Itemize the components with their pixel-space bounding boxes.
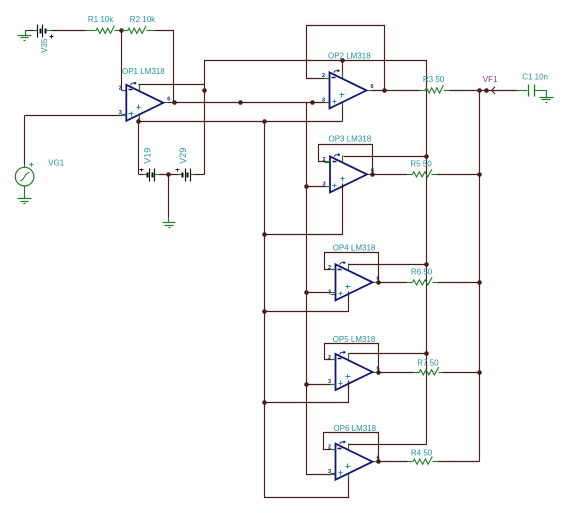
label R5 50 xyxy=(410,159,432,168)
node V- rail tap xyxy=(262,119,267,124)
node OP3 + input tap xyxy=(304,184,309,189)
label C1 10n xyxy=(522,73,548,82)
node battery center tap xyxy=(166,172,171,177)
wire junction to OP1 inverting input xyxy=(122,31,127,91)
wire VG1 to OP1 non-inverting input xyxy=(25,116,127,165)
label VG1 xyxy=(48,158,65,167)
wire OP3 V+ pin to rail xyxy=(344,156,427,158)
battery V29 xyxy=(176,169,195,182)
svg-text:R1 10k: R1 10k xyxy=(88,15,114,24)
ground at V35 xyxy=(18,31,32,41)
node wire join B xyxy=(310,100,315,105)
wire V35 to R1 xyxy=(52,30,86,32)
wire R6 to output rail xyxy=(438,282,480,284)
wire non-inverting input rail xyxy=(307,103,336,475)
wire OP3 + input from rail xyxy=(307,186,331,188)
node OP4 V- tap xyxy=(262,309,267,314)
node OP3 V- tap xyxy=(262,232,267,237)
node OP2 output xyxy=(382,88,387,93)
wire OP5 feedback loop xyxy=(325,344,379,373)
svg-text:R7 50: R7 50 xyxy=(417,359,439,368)
generator VG1 xyxy=(15,163,34,186)
label OP6 LM318 xyxy=(333,424,376,433)
svg-text:V35: V35 xyxy=(40,38,49,53)
svg-text:C1 10n: C1 10n xyxy=(522,73,548,82)
capacitor C1 xyxy=(529,85,535,97)
wire OP4 feedback loop xyxy=(325,253,379,283)
wire OP5 + input from rail xyxy=(307,384,336,386)
svg-text:2: 2 xyxy=(328,265,331,271)
node wire join A xyxy=(238,100,243,105)
resistor R1 xyxy=(86,26,122,34)
wire OP4 V+ pin to rail xyxy=(349,264,427,266)
svg-text:R5 50: R5 50 xyxy=(410,159,432,168)
svg-text:R4 50: R4 50 xyxy=(411,449,433,458)
resistor R2 xyxy=(122,26,156,34)
svg-text:6: 6 xyxy=(371,84,374,90)
op-amp OP1 LM318 xyxy=(119,82,171,121)
resistor R7 xyxy=(414,367,443,375)
node R7 output tap xyxy=(477,370,482,375)
op-amp OP5 LM318 xyxy=(328,351,380,390)
node OP5 V+ tap xyxy=(424,351,429,356)
svg-text:OP5 LM318: OP5 LM318 xyxy=(333,335,376,344)
svg-text:R2 10k: R2 10k xyxy=(130,15,156,24)
label R4 50 xyxy=(411,449,433,458)
battery V35 xyxy=(26,25,54,39)
label R1 10k xyxy=(88,15,114,24)
wire C1 to ground xyxy=(535,91,547,98)
node OP4 output xyxy=(376,280,381,285)
svg-text:V29: V29 xyxy=(178,148,188,164)
node OP3 output xyxy=(370,172,375,177)
wire OP1 V+ pin to supply rail xyxy=(139,84,205,86)
probe VF1 xyxy=(480,87,496,94)
label V35 xyxy=(40,38,49,53)
op-amp OP4 LM318 xyxy=(328,262,380,301)
node VF1 rail junction xyxy=(477,88,482,93)
wire OP2 V+ pin to rail xyxy=(342,61,344,80)
wire OP4 + input from rail xyxy=(307,292,336,294)
svg-text:OP2 LM318: OP2 LM318 xyxy=(328,52,371,61)
wire battery center to ground xyxy=(168,175,170,223)
resistor R4 xyxy=(408,456,439,464)
wire V- rail down left side xyxy=(265,122,349,498)
node OP4 + input tap xyxy=(304,290,309,295)
svg-text:OP1 LM318: OP1 LM318 xyxy=(122,67,165,76)
node R5 output tap xyxy=(477,172,482,177)
resistor R3 xyxy=(420,85,450,93)
node OP4 V+ tap xyxy=(424,262,429,267)
ground at battery center xyxy=(163,223,176,228)
wire OP3 V- pin to V- rail xyxy=(265,184,343,235)
node OP5 + input tap xyxy=(304,382,309,387)
label R2 10k xyxy=(130,15,156,24)
label OP2 LM318 xyxy=(328,52,371,61)
label R3 50 xyxy=(423,75,445,84)
battery V19 xyxy=(140,169,160,182)
label OP3 LM318 xyxy=(329,135,372,144)
node R6 output tap xyxy=(477,280,482,285)
ground at VG1 xyxy=(18,186,32,204)
svg-text:3: 3 xyxy=(322,98,325,104)
label V29 xyxy=(178,148,188,164)
svg-text:3: 3 xyxy=(328,469,331,475)
wire OP4 output to R6 xyxy=(379,282,407,284)
svg-text:V19: V19 xyxy=(142,148,152,164)
svg-text:2: 2 xyxy=(322,157,325,163)
op-amp OP6 LM318 xyxy=(328,441,380,480)
svg-text:OP4 LM318: OP4 LM318 xyxy=(333,243,376,252)
wire OP6 output to R4 xyxy=(379,461,408,463)
wire OP1 output to OP2..OP6 non-inverting inputs xyxy=(169,102,330,104)
label R7 50 xyxy=(417,359,439,368)
svg-text:OP3 LM318: OP3 LM318 xyxy=(329,135,372,144)
wire OP1 V- to battery V19 xyxy=(139,122,148,175)
resistor R6 xyxy=(407,277,438,285)
wire OP2 output to R3 xyxy=(372,90,420,92)
wire OP5 V+ pin to rail xyxy=(349,353,427,355)
wire V19 to V29 xyxy=(160,174,183,176)
label OP4 LM318 xyxy=(333,243,376,252)
resistor R5 xyxy=(407,169,438,177)
label OP1 LM318 xyxy=(122,67,165,76)
wire R7 to output rail xyxy=(443,372,480,374)
svg-text:R6 50: R6 50 xyxy=(411,268,433,277)
ground at C1 xyxy=(540,98,554,103)
wire OP5 V- pin to V- rail xyxy=(265,381,349,403)
label VF1 xyxy=(483,75,498,84)
wire OP3 output to R5 xyxy=(373,174,407,176)
wire R2 to OP1 output (feedback) xyxy=(156,31,174,103)
wire R3 to output node xyxy=(450,90,480,92)
op-amp OP2 LM318 xyxy=(322,70,374,109)
wire OP6 feedback loop xyxy=(324,433,379,462)
wire OP3 feedback loop xyxy=(319,145,373,175)
label R6 50 xyxy=(411,268,433,277)
svg-text:OP6 LM318: OP6 LM318 xyxy=(333,424,376,433)
node R1/R2 junction xyxy=(119,28,124,33)
wire OP6 V+ pin to rail xyxy=(349,444,427,446)
wire OP1 V- pin run to OP2 V- pin xyxy=(139,103,343,122)
node OP2 V+ tap xyxy=(340,58,345,63)
wire R4 to output rail xyxy=(439,461,480,463)
node OP1 V- junction xyxy=(136,119,141,124)
wire VF1 to C1 xyxy=(487,90,528,92)
svg-text:VG1: VG1 xyxy=(48,158,65,167)
wire OP4 V- pin to V- rail xyxy=(265,292,349,312)
svg-text:R3 50: R3 50 xyxy=(423,75,445,84)
op-amp OP3 LM318 xyxy=(322,154,374,193)
node supply rail join xyxy=(202,88,207,93)
wire OP5 output to R7 xyxy=(379,372,414,374)
wire OP2 feedback loop xyxy=(307,26,385,91)
node OP5 output xyxy=(376,370,381,375)
node OP1 output xyxy=(172,100,177,105)
node OP5 V- tap xyxy=(262,400,267,405)
wire V+ supply rail xyxy=(195,61,427,445)
label V19 xyxy=(142,148,152,164)
wire R5 to output rail xyxy=(438,174,480,176)
svg-text:VF1: VF1 xyxy=(483,75,498,84)
node OP3 V+ tap xyxy=(424,154,429,159)
node OP6 output xyxy=(376,459,381,464)
svg-text:6: 6 xyxy=(167,97,170,103)
svg-text:2: 2 xyxy=(119,86,122,92)
label OP5 LM318 xyxy=(333,335,376,344)
wire output rail (right) xyxy=(479,91,481,462)
